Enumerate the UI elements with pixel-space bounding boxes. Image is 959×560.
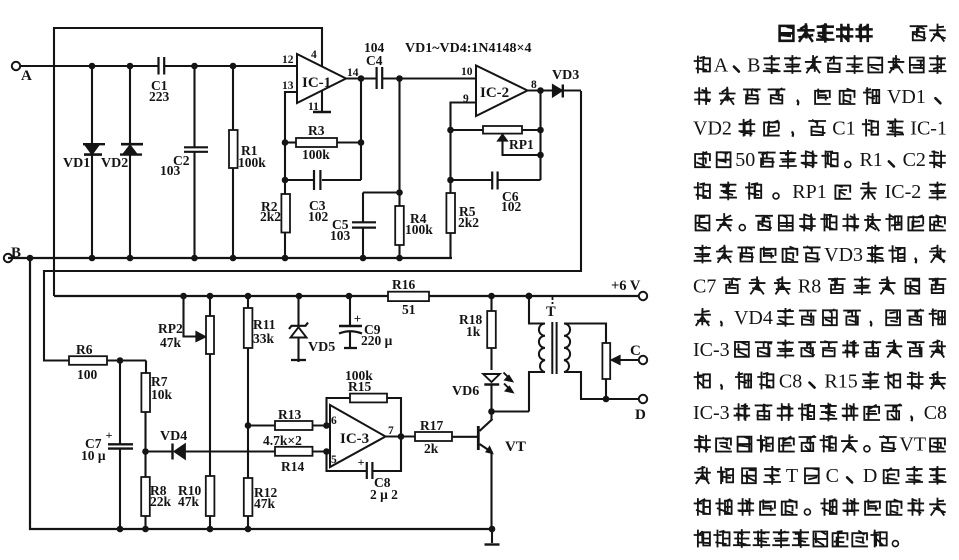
svg-text:RP1: RP1 xyxy=(792,181,826,203)
svg-text:102: 102 xyxy=(501,199,522,214)
svg-text:+: + xyxy=(106,428,113,442)
svg-text:220 μ: 220 μ xyxy=(361,333,393,348)
svg-text:VD2: VD2 xyxy=(693,118,732,140)
svg-text:8: 8 xyxy=(531,79,537,91)
svg-text:IC-2: IC-2 xyxy=(885,181,922,203)
svg-text:2k: 2k xyxy=(424,441,439,456)
svg-text:A: A xyxy=(21,68,32,84)
svg-text:RP1: RP1 xyxy=(509,137,534,152)
svg-text:100k: 100k xyxy=(405,222,433,237)
svg-text:102: 102 xyxy=(308,209,329,224)
svg-text:B: B xyxy=(747,54,760,76)
svg-text:VD3: VD3 xyxy=(552,68,579,83)
svg-text:R6: R6 xyxy=(76,342,93,357)
svg-text:C: C xyxy=(826,465,839,487)
svg-text:C8: C8 xyxy=(779,370,802,392)
svg-text:100k: 100k xyxy=(238,155,266,170)
svg-text:1k: 1k xyxy=(466,324,481,339)
svg-text:VD1: VD1 xyxy=(63,156,90,171)
svg-text:C2: C2 xyxy=(903,149,926,171)
svg-text:R15: R15 xyxy=(824,370,857,392)
svg-text:10 μ: 10 μ xyxy=(81,448,106,463)
svg-text:+: + xyxy=(354,311,361,326)
svg-text:C4: C4 xyxy=(366,53,383,68)
svg-text:10k: 10k xyxy=(151,387,173,402)
svg-text:2 μ 2: 2 μ 2 xyxy=(370,487,398,502)
svg-text:IC-3: IC-3 xyxy=(693,402,730,424)
svg-text:R15: R15 xyxy=(348,379,371,394)
svg-text:13: 13 xyxy=(282,80,294,92)
svg-text:47k: 47k xyxy=(160,335,182,350)
svg-text:7: 7 xyxy=(388,425,394,437)
svg-text:R8: R8 xyxy=(798,276,821,298)
svg-text:T: T xyxy=(786,465,798,487)
svg-text:R17: R17 xyxy=(420,418,443,433)
svg-text:4.7k×2: 4.7k×2 xyxy=(263,433,302,448)
svg-text:VT: VT xyxy=(505,439,526,455)
svg-text:22k: 22k xyxy=(150,494,172,509)
svg-text:51: 51 xyxy=(402,302,416,317)
svg-text:2k2: 2k2 xyxy=(260,209,281,224)
svg-text:223: 223 xyxy=(149,89,170,104)
svg-text:VD2: VD2 xyxy=(101,156,128,171)
svg-text:5: 5 xyxy=(331,454,337,466)
svg-text:A: A xyxy=(714,54,729,76)
svg-text:IC-3: IC-3 xyxy=(693,339,730,361)
svg-text:IC-3: IC-3 xyxy=(340,431,369,447)
svg-text:12: 12 xyxy=(282,54,294,66)
svg-text:R14: R14 xyxy=(281,459,304,474)
svg-text:R13: R13 xyxy=(278,407,301,422)
svg-text:47k: 47k xyxy=(254,496,276,511)
svg-text:IC-1: IC-1 xyxy=(910,118,947,140)
svg-text:VD6: VD6 xyxy=(452,384,479,399)
svg-text:VD4: VD4 xyxy=(734,307,773,329)
svg-text:47k: 47k xyxy=(178,494,200,509)
svg-text:103: 103 xyxy=(160,163,181,178)
svg-text:14: 14 xyxy=(347,67,359,79)
svg-text:D: D xyxy=(863,465,877,487)
svg-text:R1: R1 xyxy=(859,149,882,171)
svg-text:VT: VT xyxy=(899,434,926,456)
svg-text:100k: 100k xyxy=(302,147,330,162)
svg-text:C7: C7 xyxy=(693,276,716,298)
svg-text:IC-1: IC-1 xyxy=(302,75,331,91)
svg-text:C1: C1 xyxy=(832,118,855,140)
svg-text:VD1: VD1 xyxy=(887,86,926,108)
svg-text:T: T xyxy=(546,304,556,320)
svg-text:VD3: VD3 xyxy=(824,244,863,266)
svg-text:RP2: RP2 xyxy=(158,321,183,336)
svg-text:6: 6 xyxy=(331,415,337,427)
svg-text:VD4: VD4 xyxy=(160,429,187,444)
svg-text:R3: R3 xyxy=(308,123,325,138)
svg-text:+: + xyxy=(358,455,365,469)
svg-text:10: 10 xyxy=(461,66,473,78)
svg-text:4: 4 xyxy=(311,49,317,61)
svg-text:C: C xyxy=(630,343,641,359)
svg-text:103: 103 xyxy=(330,228,351,243)
svg-text:+6 V: +6 V xyxy=(611,278,641,294)
svg-text:VD1~VD4:1N4148×4: VD1~VD4:1N4148×4 xyxy=(405,41,531,56)
svg-text:C8: C8 xyxy=(924,402,947,424)
svg-text:D: D xyxy=(635,407,646,423)
svg-text:100: 100 xyxy=(77,367,98,382)
svg-text:IC-2: IC-2 xyxy=(480,85,509,101)
svg-text:R16: R16 xyxy=(392,277,415,292)
svg-text:VD5: VD5 xyxy=(308,340,335,355)
svg-text:2k2: 2k2 xyxy=(458,215,479,230)
svg-text:R11: R11 xyxy=(253,317,276,332)
svg-text:50: 50 xyxy=(735,149,755,171)
svg-text:33k: 33k xyxy=(253,331,275,346)
